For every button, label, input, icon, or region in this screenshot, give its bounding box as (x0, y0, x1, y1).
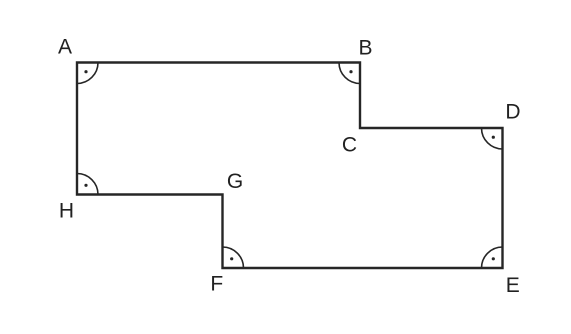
right-angle arc at A (77, 63, 98, 84)
right-angle arc at B (339, 63, 360, 84)
svg-text:B: B (358, 37, 372, 60)
svg-text:A: A (58, 36, 72, 59)
svg-text:D: D (505, 101, 520, 124)
svg-text:H: H (59, 200, 74, 223)
right-angle dot at E (492, 257, 495, 260)
svg-text:G: G (227, 170, 243, 193)
right-angle arc at H (77, 174, 98, 195)
right-angle dot at A (84, 70, 87, 73)
right-angle arc at F (223, 247, 244, 268)
svg-text:F: F (210, 273, 223, 296)
right-angle dot at D (492, 136, 495, 139)
svg-text:E: E (506, 274, 520, 297)
svg-text:C: C (342, 134, 357, 157)
polygon ABCDEFGH outline (77, 63, 503, 269)
right-angle arc at D (482, 128, 503, 149)
right-angle dot at B (349, 70, 352, 73)
right-angle dot at H (84, 184, 87, 187)
right-angle arc at E (482, 247, 503, 268)
right-angle dot at F (230, 257, 233, 260)
